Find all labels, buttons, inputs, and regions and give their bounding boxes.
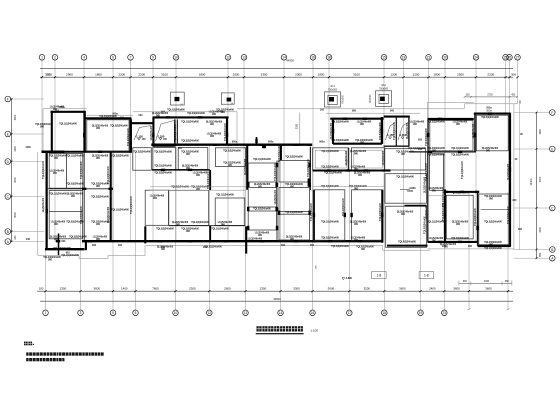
svg-text:903: 903 xyxy=(281,244,286,247)
svg-text:2200: 2200 xyxy=(138,72,145,76)
svg-text:900: 900 xyxy=(153,198,158,200)
svg-text:900: 900 xyxy=(196,175,201,177)
notes heading blocks xyxy=(24,342,34,346)
beam mid-left top xyxy=(153,116,229,118)
svg-text:900: 900 xyxy=(432,191,437,193)
beam left room2 right wall xyxy=(129,119,132,153)
svg-text:TQL2(2)240x400: TQL2(2)240x400 xyxy=(307,158,310,176)
wall mid-right band room a xyxy=(313,148,349,170)
svg-text:C: C xyxy=(551,206,554,210)
svg-text:TQL5(2)240x900: TQL5(2)240x900 xyxy=(171,186,189,189)
svg-text:L1(2)240x400: L1(2)240x400 xyxy=(429,237,444,240)
svg-text:14400: 14400 xyxy=(530,178,533,186)
svg-text:900: 900 xyxy=(96,186,101,188)
svg-text:TQL2(2)240x400: TQL2(2)240x400 xyxy=(379,202,382,220)
beam main bottom long xyxy=(82,240,383,242)
wall left interior shelf xyxy=(49,210,83,212)
svg-text:3600: 3600 xyxy=(328,286,335,290)
svg-text:TQL3(2)240x400: TQL3(2)240x400 xyxy=(427,154,445,157)
svg-text:12: 12 xyxy=(226,56,230,60)
svg-text:TQL1(1)240x400: TQL1(1)240x400 xyxy=(393,121,396,139)
bottom dimension ticks xyxy=(44,290,509,292)
svg-text:TQL1(1)240x400: TQL1(1)240x400 xyxy=(111,209,129,212)
stair2 left flight break line xyxy=(386,123,396,141)
wall right small room xyxy=(430,154,444,191)
svg-text:QL2(2)240x450: QL2(2)240x450 xyxy=(157,246,174,249)
svg-text:900a: 900a xyxy=(319,140,325,143)
beam right block top upper xyxy=(474,113,511,115)
wall mid-left west room xyxy=(133,148,152,171)
stair1 level mark left xyxy=(135,134,146,141)
svg-text:QL2(2)240x450: QL2(2)240x450 xyxy=(424,176,427,193)
grid bubble 3 bottom xyxy=(78,310,84,316)
svg-text:L1(2)240x400: L1(2)240x400 xyxy=(345,150,348,165)
stair1 left flight break line xyxy=(134,126,151,141)
svg-text:900: 900 xyxy=(489,198,494,200)
svg-text:QL2(2)240x450: QL2(2)240x450 xyxy=(452,221,469,224)
svg-text:TQL1(1)240x400: TQL1(1)240x400 xyxy=(154,165,172,168)
wall room mid-left b xyxy=(178,148,208,170)
grid bubble A left xyxy=(5,239,44,245)
slab outline mid-right top xyxy=(237,108,465,110)
svg-text:TQL2(2)240x400: TQL2(2)240x400 xyxy=(356,246,374,249)
svg-text:L1(2)240x400: L1(2)240x400 xyxy=(150,125,153,140)
svg-text:300: 300 xyxy=(511,72,516,76)
svg-text:900: 900 xyxy=(352,109,357,112)
wall middle spine xyxy=(276,160,278,240)
svg-text:903: 903 xyxy=(178,147,183,150)
beam right lower bottom xyxy=(428,241,478,243)
bottom dimension line xyxy=(37,290,513,292)
beam mid-right band bottom xyxy=(313,170,385,172)
svg-text:1400: 1400 xyxy=(25,146,31,149)
svg-text:TQL1(1)240x400: TQL1(1)240x400 xyxy=(285,211,303,214)
svg-text:900: 900 xyxy=(96,224,101,226)
wall stair2 right xyxy=(408,117,410,147)
grid bubble 12 bottom xyxy=(207,310,213,316)
svg-text:240: 240 xyxy=(14,235,17,240)
grid bubble 24 top xyxy=(473,55,479,61)
beam left band bottom heavy xyxy=(42,151,65,154)
svg-text:TQL3(2)240x400: TQL3(2)240x400 xyxy=(154,172,172,175)
dim line 2300 vertical xyxy=(299,113,301,144)
svg-text:3600: 3600 xyxy=(14,114,17,120)
svg-text:L1(2)240x400: L1(2)240x400 xyxy=(255,232,270,235)
wall room mid-left c xyxy=(169,190,209,225)
grid bubble 15 top xyxy=(381,55,387,61)
column detail JZ-2 xyxy=(370,84,392,106)
grid bubble 20 top xyxy=(442,55,448,61)
drawing title glyph blocks xyxy=(257,326,303,331)
svg-text:TQL2(2)240x400: TQL2(2)240x400 xyxy=(49,155,67,158)
svg-text:1800: 1800 xyxy=(95,72,102,76)
beam right mid xyxy=(409,151,476,153)
svg-text:TQL1(1)240x400: TQL1(1)240x400 xyxy=(324,172,342,175)
svg-text:3600: 3600 xyxy=(399,286,406,290)
svg-text:903: 903 xyxy=(92,244,97,247)
svg-text:180: 180 xyxy=(315,265,317,269)
svg-text:13: 13 xyxy=(242,56,246,60)
svg-text:950: 950 xyxy=(505,280,510,283)
svg-text:44900: 44900 xyxy=(286,59,294,63)
wall left interior divider xyxy=(47,188,111,190)
wall middle room a xyxy=(215,148,245,167)
svg-text:TQL3(2)240x400: TQL3(2)240x400 xyxy=(42,160,45,178)
svg-text:2: 2 xyxy=(54,56,56,60)
beam mid-left band bottom xyxy=(152,169,210,171)
svg-text:900: 900 xyxy=(61,240,66,243)
svg-text:960: 960 xyxy=(463,280,468,283)
svg-text:902: 902 xyxy=(118,244,123,247)
svg-text:C: C xyxy=(7,195,10,199)
svg-text:TQL3(2)240x400: TQL3(2)240x400 xyxy=(181,140,199,143)
svg-text:TQL1(1)240x400: TQL1(1)240x400 xyxy=(396,176,414,179)
svg-text:900: 900 xyxy=(258,235,263,237)
svg-text:TQL5(2)240x900: TQL5(2)240x900 xyxy=(154,151,172,154)
stair2 level mark left xyxy=(386,133,394,139)
svg-text:903: 903 xyxy=(203,246,208,249)
wall mid-right lower room a xyxy=(314,190,345,240)
svg-text:16: 16 xyxy=(311,311,315,315)
column blob m5 xyxy=(262,145,266,148)
wall mid-right band divider xyxy=(347,148,349,170)
drawing title underline xyxy=(256,333,304,334)
beam mid-left room bottom xyxy=(151,144,311,146)
svg-text:1: 1 xyxy=(41,56,43,60)
svg-text:1800: 1800 xyxy=(433,72,440,76)
svg-text:F: F xyxy=(551,111,553,115)
grid bubble 14 bottom xyxy=(278,310,284,316)
slab outline bottom middle xyxy=(145,246,430,256)
svg-text:900: 900 xyxy=(53,173,58,175)
wall mid-right lower room b xyxy=(352,190,383,240)
slab outline left lower xyxy=(38,152,145,259)
svg-text:3: 3 xyxy=(80,311,82,315)
svg-text:TQL5(2)240x900: TQL5(2)240x900 xyxy=(331,245,349,248)
stair1 right flight break line xyxy=(156,121,175,142)
notes line 2 xyxy=(26,358,64,361)
svg-text:TQL3(2)240x400: TQL3(2)240x400 xyxy=(110,125,128,128)
notes line 1 xyxy=(26,352,103,355)
column blob m2 xyxy=(308,178,310,186)
grid bubble 21 top xyxy=(426,55,432,61)
svg-text:3600: 3600 xyxy=(453,286,460,290)
svg-text:450: 450 xyxy=(511,94,516,97)
beam gap room a bottom dark xyxy=(382,169,391,171)
svg-text:23: 23 xyxy=(443,311,447,315)
right dimension texts xyxy=(539,128,542,257)
svg-text:21: 21 xyxy=(427,56,431,60)
svg-text:500a: 500a xyxy=(486,106,492,109)
svg-text:TQL2(2)240x400: TQL2(2)240x400 xyxy=(216,109,234,112)
left dimension texts xyxy=(14,114,17,239)
svg-text:TQL1(1)240x400: TQL1(1)240x400 xyxy=(484,247,502,250)
svg-text:L1(2)240x400: L1(2)240x400 xyxy=(351,166,366,169)
svg-text:TQL3(2)240x400: TQL3(2)240x400 xyxy=(507,205,510,223)
svg-text:TQL2(2)240x400: TQL2(2)240x400 xyxy=(181,228,199,231)
grid bubble 13 bottom xyxy=(243,310,249,316)
corridor thin lines xyxy=(150,187,445,196)
svg-text:F: F xyxy=(7,97,9,101)
grid bubble C right xyxy=(514,205,555,211)
svg-text:QL2(2)240x450: QL2(2)240x450 xyxy=(92,155,109,158)
wall mid-left west room b xyxy=(145,190,168,225)
grid bubble 1 top xyxy=(39,55,45,61)
svg-text:TQL5(2)240x900: TQL5(2)240x900 xyxy=(285,156,303,159)
wall middle room b xyxy=(248,163,276,182)
svg-text:TQL1(1)240x400: TQL1(1)240x400 xyxy=(321,150,339,153)
svg-text:2300: 2300 xyxy=(260,286,267,290)
grid bubble 6 top xyxy=(110,55,116,61)
wall mid-right band room b inner xyxy=(354,150,383,168)
svg-text:TQL3(2)240x400: TQL3(2)240x400 xyxy=(187,112,205,115)
svg-text:700x500: 700x500 xyxy=(328,88,338,91)
svg-text:900: 900 xyxy=(161,249,166,251)
grid bubble F left xyxy=(5,96,44,102)
grid bubble 16 top xyxy=(310,55,316,61)
svg-text:QL2(2)240x450: QL2(2)240x450 xyxy=(254,183,271,186)
top dimension line lower xyxy=(40,76,513,78)
svg-text:90: 90 xyxy=(515,158,518,161)
bottom dimension numbers xyxy=(39,286,493,290)
beam left room1 left wall xyxy=(51,111,53,153)
svg-text:TQL1(1)240x400: TQL1(1)240x400 xyxy=(61,254,79,257)
grid bubble B left xyxy=(5,229,44,235)
wall middle room f xyxy=(279,187,310,211)
beam right inner top xyxy=(444,191,478,193)
wall mid-right band room b xyxy=(351,148,384,170)
svg-text:390: 390 xyxy=(518,228,523,231)
svg-text:16: 16 xyxy=(311,56,315,60)
svg-text:46800: 46800 xyxy=(273,297,281,301)
svg-text:TQL1(1)240x400: TQL1(1)240x400 xyxy=(321,221,339,224)
svg-text:940: 940 xyxy=(26,238,31,241)
svg-text:900a: 900a xyxy=(268,140,274,143)
svg-text:2600: 2600 xyxy=(224,286,231,290)
grid bubble 5 bottom xyxy=(110,310,116,316)
wall gap room b xyxy=(385,174,427,204)
beam middle band left post xyxy=(280,145,282,161)
svg-text:2300: 2300 xyxy=(189,286,196,290)
svg-text:3600: 3600 xyxy=(485,286,492,290)
svg-text:1800: 1800 xyxy=(318,72,325,76)
vertical grid lines from top axis bubbles xyxy=(42,60,518,242)
svg-text:TQL1(1)240x400: TQL1(1)240x400 xyxy=(211,228,229,231)
svg-text:QL2(2)240x450: QL2(2)240x450 xyxy=(67,193,84,196)
svg-text:150: 150 xyxy=(163,139,168,141)
svg-text:TQL2(2)240x400: TQL2(2)240x400 xyxy=(181,151,199,154)
svg-text:TQL5(2)240x900: TQL5(2)240x900 xyxy=(53,247,71,250)
svg-text:L1(2)240x400: L1(2)240x400 xyxy=(410,121,425,124)
svg-text:TQL5(2)240x900: TQL5(2)240x900 xyxy=(481,116,499,119)
svg-text:L1(2)240x400: L1(2)240x400 xyxy=(150,195,165,198)
svg-text:900: 900 xyxy=(40,126,45,128)
svg-text:TQL1(1)240x400: TQL1(1)240x400 xyxy=(216,194,234,197)
svg-text:5: 5 xyxy=(112,311,114,315)
svg-text:-1.150: -1.150 xyxy=(135,134,143,138)
wall mid-left lower shelf xyxy=(169,225,245,227)
svg-text:3100: 3100 xyxy=(161,72,168,76)
svg-text:903: 903 xyxy=(228,144,233,147)
wall middle room e xyxy=(279,160,310,182)
beam left lower left wall xyxy=(46,152,48,250)
svg-text:3300: 3300 xyxy=(261,72,268,76)
svg-text:2000: 2000 xyxy=(295,72,302,76)
svg-text:900: 900 xyxy=(48,259,53,261)
beam stair1 left top xyxy=(132,122,153,124)
bottom total dimension line xyxy=(40,300,513,302)
svg-text:2730: 2730 xyxy=(487,94,493,97)
beam left bottom post xyxy=(85,240,87,250)
beam bottom step post xyxy=(245,226,247,253)
svg-text:10: 10 xyxy=(174,56,178,60)
svg-text:A: A xyxy=(7,240,10,244)
svg-text:150: 150 xyxy=(409,191,414,193)
svg-text:L1(2)240x400: L1(2)240x400 xyxy=(351,237,366,240)
column blob m3 xyxy=(276,208,278,212)
sub dimension bracket bottom right xyxy=(459,280,512,285)
grid bubble 16 bottom xyxy=(310,310,316,316)
section stub bottom left xyxy=(58,234,60,256)
right vertical dimension line xyxy=(536,113,538,259)
svg-text:3100: 3100 xyxy=(353,72,360,76)
slab outline mid-left top xyxy=(87,114,134,116)
svg-text:TQL3(2)240x400: TQL3(2)240x400 xyxy=(331,121,349,124)
svg-text:TQL3(2)240x400: TQL3(2)240x400 xyxy=(321,166,339,169)
svg-text:1-8: 1-8 xyxy=(376,274,381,278)
grid bubble E right xyxy=(514,146,555,152)
top dimension line upper xyxy=(40,67,513,69)
svg-text:3000: 3000 xyxy=(14,212,17,218)
svg-text:L1(2)240x400: L1(2)240x400 xyxy=(51,221,66,224)
wall gap room c xyxy=(386,206,427,247)
svg-text:TQL3(2)240x400: TQL3(2)240x400 xyxy=(133,151,151,154)
svg-text:TQL1(1)240x400: TQL1(1)240x400 xyxy=(107,165,110,183)
wall stair2 mid xyxy=(395,117,397,146)
svg-text:500: 500 xyxy=(46,73,51,76)
grid bubble 1 bottom xyxy=(43,310,49,316)
wall right room c xyxy=(446,195,473,239)
svg-text:QL2(2)240x450: QL2(2)240x450 xyxy=(92,125,109,128)
svg-text:TQL3(2)240x400: TQL3(2)240x400 xyxy=(484,221,502,224)
svg-text:QL2(2)240x450: QL2(2)240x450 xyxy=(350,150,367,153)
svg-text:QL2(2)240x450: QL2(2)240x450 xyxy=(50,236,67,239)
svg-text:L1(2)240x400: L1(2)240x400 xyxy=(218,221,233,224)
svg-text:904: 904 xyxy=(161,110,166,113)
svg-text:3000: 3000 xyxy=(14,177,17,183)
svg-text:QL2(2)240x450: QL2(2)240x450 xyxy=(406,122,409,139)
svg-text:902: 902 xyxy=(468,245,473,248)
grid bubble 4 top xyxy=(81,55,87,61)
svg-text:TQL5(2)240x900: TQL5(2)240x900 xyxy=(174,123,177,141)
grid bubble 17 bottom xyxy=(347,310,353,316)
svg-text:13: 13 xyxy=(244,311,248,315)
column detail J-1 a xyxy=(171,92,185,106)
svg-text:15: 15 xyxy=(382,56,386,60)
wall left interior room a xyxy=(49,153,83,188)
beam gap bottom xyxy=(387,245,428,247)
svg-text:TQL5(2)240x900: TQL5(2)240x900 xyxy=(223,150,241,153)
svg-text:TQL2(2)240x400: TQL2(2)240x400 xyxy=(223,162,241,165)
grid bubble 18 bottom xyxy=(382,310,388,316)
svg-text:TQL5(2)240x900: TQL5(2)240x900 xyxy=(278,143,281,161)
slab outline right top xyxy=(428,102,474,119)
wall middle room c xyxy=(248,187,276,207)
svg-text:7600: 7600 xyxy=(152,286,159,290)
svg-text:2200: 2200 xyxy=(487,72,494,76)
svg-text:E: E xyxy=(551,147,553,151)
svg-text:L1(2)240x400: L1(2)240x400 xyxy=(382,150,385,165)
svg-text:TQL1(1)240x400: TQL1(1)240x400 xyxy=(181,121,199,124)
grid bubble F right xyxy=(514,110,555,116)
grid bubble 23 bottom xyxy=(442,310,448,316)
left vertical dimension line xyxy=(11,99,13,242)
wall room below stair1 xyxy=(153,148,176,170)
svg-text:300: 300 xyxy=(320,108,325,111)
grid bubble 25 top xyxy=(503,55,509,61)
wall middle room g xyxy=(279,214,310,240)
slab outline left block xyxy=(43,109,87,152)
beam mid-right room right wall xyxy=(381,117,383,144)
svg-text:500a: 500a xyxy=(486,109,492,112)
beam mid-right lower right wall xyxy=(381,190,383,243)
stub middle jamb xyxy=(256,137,258,145)
svg-text:900: 900 xyxy=(71,196,76,198)
svg-text:904: 904 xyxy=(139,114,144,117)
wall mid-right band room a inner xyxy=(315,150,346,168)
svg-text:900: 900 xyxy=(358,175,363,177)
beam left room1 top xyxy=(51,111,86,113)
beam right block right edge xyxy=(509,113,511,247)
column blob m1 xyxy=(276,183,278,187)
svg-text:6: 6 xyxy=(112,56,114,60)
svg-text:TQL3(2)240x400: TQL3(2)240x400 xyxy=(191,221,209,224)
svg-text:-4.830: -4.830 xyxy=(408,187,416,190)
svg-text:900: 900 xyxy=(186,231,191,233)
svg-text:TQL5(2)240x900: TQL5(2)240x900 xyxy=(80,160,83,178)
beam text labels vertical xyxy=(42,121,510,233)
sub dimension line top right xyxy=(464,94,518,98)
svg-text:TQL1(1)240x400: TQL1(1)240x400 xyxy=(224,122,227,140)
svg-text:TQL2(2)240x400: TQL2(2)240x400 xyxy=(484,195,502,198)
svg-text:900: 900 xyxy=(456,124,461,126)
svg-text:L1(2)240x400: L1(2)240x400 xyxy=(93,236,108,239)
grid bubble B right xyxy=(514,247,555,253)
wall right big room xyxy=(479,194,509,245)
svg-text:900: 900 xyxy=(186,154,191,156)
beam right inner left wall xyxy=(444,189,446,242)
svg-text:L1(2)240x400: L1(2)240x400 xyxy=(50,170,65,173)
grid bubble 14 top xyxy=(281,55,287,61)
svg-text:900: 900 xyxy=(210,136,215,138)
svg-text:900: 900 xyxy=(360,124,365,126)
beam stair2 bottom xyxy=(384,145,410,147)
svg-text:900: 900 xyxy=(96,128,101,130)
svg-text:3000: 3000 xyxy=(539,226,542,232)
svg-text:4: 4 xyxy=(83,56,85,60)
svg-text:3200: 3200 xyxy=(364,286,371,290)
svg-text:1: 1 xyxy=(45,311,47,315)
wall middle right spine xyxy=(309,147,311,190)
slab outline middle bay xyxy=(236,112,238,144)
svg-text:900: 900 xyxy=(456,224,461,226)
svg-text:14: 14 xyxy=(279,311,283,315)
svg-text:TQL1(1)240x400: TQL1(1)240x400 xyxy=(451,147,469,150)
beam left band bottom xyxy=(65,151,132,153)
svg-text:2300: 2300 xyxy=(296,123,299,129)
svg-text:902: 902 xyxy=(310,244,315,247)
wall right room a xyxy=(430,120,473,150)
